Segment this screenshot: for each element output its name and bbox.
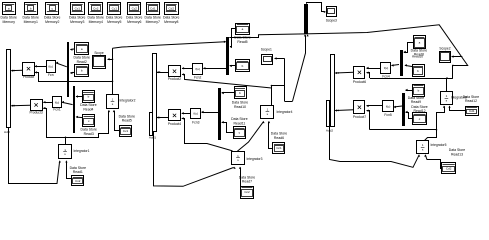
svg-text:f(u): f(u)	[386, 104, 391, 108]
svg-text:Cc1: Cc1	[276, 146, 282, 150]
svg-text:Cv2: Cv2	[75, 179, 81, 183]
svg-text:Integrator3: Integrator3	[247, 157, 263, 161]
svg-text:Scope: Scope	[94, 51, 104, 55]
svg-text:f(u): f(u)	[194, 111, 199, 115]
svg-text:Fcn5: Fcn5	[384, 113, 391, 117]
svg-text:Read13: Read13	[451, 152, 463, 156]
svg-text:Memory3: Memory3	[70, 20, 84, 24]
svg-text:Fcn1: Fcn1	[53, 108, 60, 112]
svg-text:Read5: Read5	[122, 119, 132, 123]
svg-text:Scope1: Scope1	[261, 47, 272, 51]
svg-text:Fcn4: Fcn4	[382, 75, 389, 79]
svg-text:Memory5: Memory5	[107, 20, 121, 24]
svg-text:Integrator4: Integrator4	[277, 110, 293, 114]
svg-text:Cd2: Cd2	[446, 166, 452, 170]
svg-text:Read2: Read2	[77, 60, 87, 64]
svg-text:Memory1: Memory1	[24, 20, 38, 24]
svg-text:Cc1: Cc1	[112, 6, 118, 10]
svg-text:Read6: Read6	[274, 136, 284, 140]
svg-text:Fcn: Fcn	[48, 73, 54, 77]
svg-text:Read10: Read10	[412, 55, 423, 59]
svg-text:Memory7: Memory7	[146, 20, 160, 24]
svg-text:Add1: Add1	[149, 136, 157, 140]
svg-text:Read5: Read5	[237, 40, 247, 44]
svg-text:Memory: Memory	[3, 20, 16, 24]
svg-text:Fcn3: Fcn3	[192, 121, 199, 125]
svg-text:Read9: Read9	[411, 100, 421, 104]
svg-text:Product3: Product3	[29, 110, 42, 114]
svg-text:Read12: Read12	[465, 99, 477, 103]
svg-text:Fcn2: Fcn2	[194, 76, 201, 80]
svg-text:Read10: Read10	[234, 105, 246, 109]
svg-text:Memory6: Memory6	[127, 20, 141, 24]
svg-text:Read4: Read4	[83, 107, 93, 111]
svg-text:Cv2: Cv2	[93, 6, 99, 10]
svg-text:Read11: Read11	[234, 121, 246, 125]
svg-text:Memory4: Memory4	[89, 20, 103, 24]
svg-text:Cd1: Cd1	[150, 6, 156, 10]
svg-text:f(u): f(u)	[55, 100, 60, 104]
svg-text:Product: Product	[23, 75, 34, 79]
svg-text:Integrator1: Integrator1	[74, 149, 90, 153]
svg-text:Cc2: Cc2	[132, 6, 138, 10]
svg-text:Read1: Read1	[73, 170, 83, 174]
svg-text:f(u): f(u)	[195, 67, 200, 71]
svg-text:f(u): f(u)	[49, 65, 54, 69]
svg-text:Cv1: Cv1	[123, 129, 129, 133]
svg-text:Read3: Read3	[84, 132, 94, 136]
svg-text:Cc2: Cc2	[244, 190, 250, 194]
svg-text:Cd1: Cd1	[469, 109, 475, 113]
svg-text:Integrator5: Integrator5	[431, 143, 447, 147]
svg-text:Product2: Product2	[168, 77, 181, 81]
svg-text:Scope2: Scope2	[439, 46, 450, 50]
svg-text:Product6: Product6	[353, 80, 366, 84]
svg-text:Memory8: Memory8	[164, 20, 178, 24]
svg-text:Memory2: Memory2	[45, 20, 59, 24]
svg-text:Cv1: Cv1	[75, 6, 81, 10]
svg-text:Product4: Product4	[168, 122, 181, 126]
svg-text:f(u): f(u)	[384, 66, 389, 70]
svg-text:Read7: Read7	[242, 180, 252, 184]
svg-text:Scope3: Scope3	[326, 19, 337, 23]
svg-text:Integrator2: Integrator2	[120, 99, 136, 103]
svg-text:Product7: Product7	[353, 115, 366, 119]
svg-text:Cd2: Cd2	[168, 6, 174, 10]
